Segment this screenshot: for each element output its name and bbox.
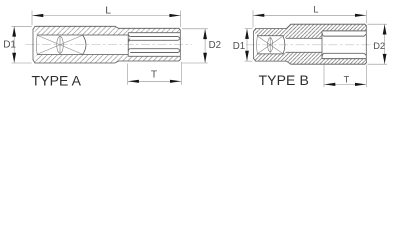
inner bore walls B	[257, 36, 283, 54]
through passage B	[286, 38, 322, 52]
dimension L A	[32, 11, 181, 28]
svg-text:D2: D2	[209, 40, 221, 51]
body outline B	[254, 24, 367, 64]
hatch bottom wall A	[33, 55, 180, 63]
dimension D2 A	[182, 29, 208, 63]
hex bore shoulder B	[321, 31, 323, 59]
cavity bottom arc A	[83, 35, 86, 55]
front chamfer arc B	[256, 36, 259, 54]
fastener ellipse A	[57, 36, 64, 53]
hatch bottom wall B	[254, 52, 367, 64]
dimension D1 A	[12, 26, 32, 63]
body outline A	[33, 26, 180, 63]
svg-text:D1: D1	[3, 40, 16, 51]
dimension D1 B	[245, 29, 253, 62]
hatch top wall A	[33, 26, 180, 35]
hex cavity cross lines A	[37, 35, 82, 54]
dimension D2 B	[368, 24, 388, 64]
drive bore shoulder A	[127, 33, 129, 57]
svg-text:L: L	[313, 5, 318, 15]
svg-text:T: T	[344, 75, 350, 85]
ellipse vertical mark B	[269, 37, 271, 54]
centerline B	[246, 44, 375, 46]
svg-text:L: L	[105, 4, 111, 16]
svg-text:T: T	[151, 70, 157, 81]
front chamfer arc A	[35, 35, 38, 55]
svg-text:TYPE B: TYPE B	[259, 72, 309, 88]
centerline A	[26, 44, 192, 46]
drive bore spline lines A	[128, 33, 180, 57]
svg-text:D2: D2	[373, 41, 385, 51]
svg-text:D1: D1	[233, 41, 245, 52]
hex cavity cross lines B	[257, 36, 283, 54]
cavity bottom arc B	[283, 36, 285, 54]
hatch top wall B	[254, 24, 367, 38]
dimension T A	[128, 62, 182, 85]
fastener ellipse B	[268, 38, 273, 52]
dimension T B	[324, 65, 366, 87]
dimension L B	[253, 10, 366, 27]
hex bore lines B	[322, 31, 366, 59]
ellipse vertical mark A	[59, 35, 61, 54]
svg-text:TYPE A: TYPE A	[32, 73, 82, 89]
inner bore walls A	[37, 35, 128, 55]
